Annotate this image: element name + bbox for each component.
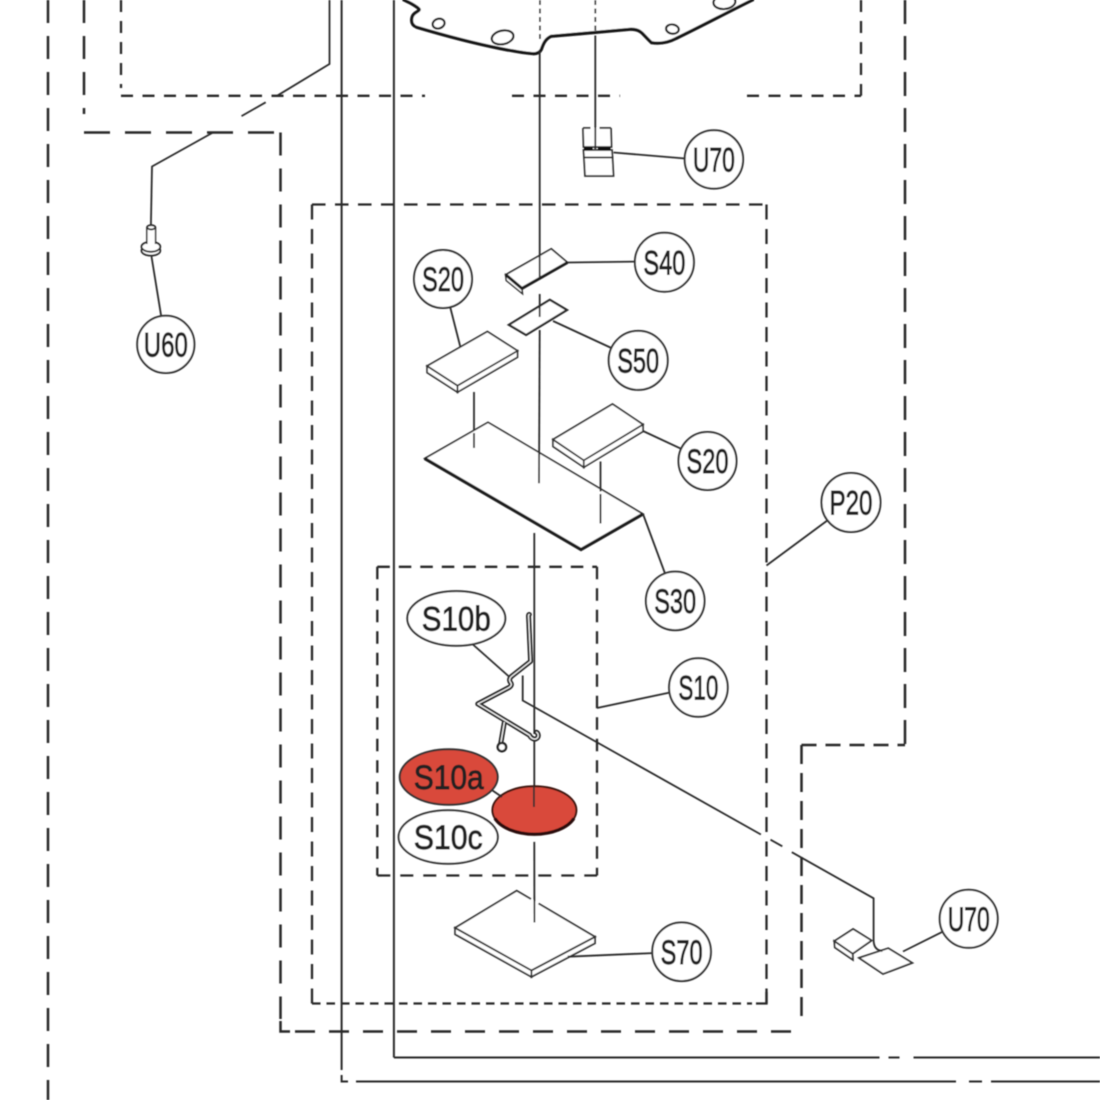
svg-text:U70: U70 (693, 142, 735, 180)
svg-text:S10a: S10a (414, 759, 484, 797)
svg-text:U70: U70 (948, 901, 990, 939)
svg-text:S20: S20 (687, 443, 729, 481)
svg-text:S10: S10 (678, 670, 718, 708)
svg-text:S10c: S10c (414, 819, 483, 857)
svg-text:P20: P20 (830, 485, 873, 523)
svg-text:S30: S30 (654, 583, 696, 621)
svg-text:S10b: S10b (422, 601, 491, 639)
svg-text:U60: U60 (144, 327, 188, 365)
svg-text:S50: S50 (617, 343, 659, 381)
svg-text:S70: S70 (661, 934, 703, 972)
svg-text:S40: S40 (643, 244, 685, 282)
svg-text:S20: S20 (422, 261, 464, 299)
